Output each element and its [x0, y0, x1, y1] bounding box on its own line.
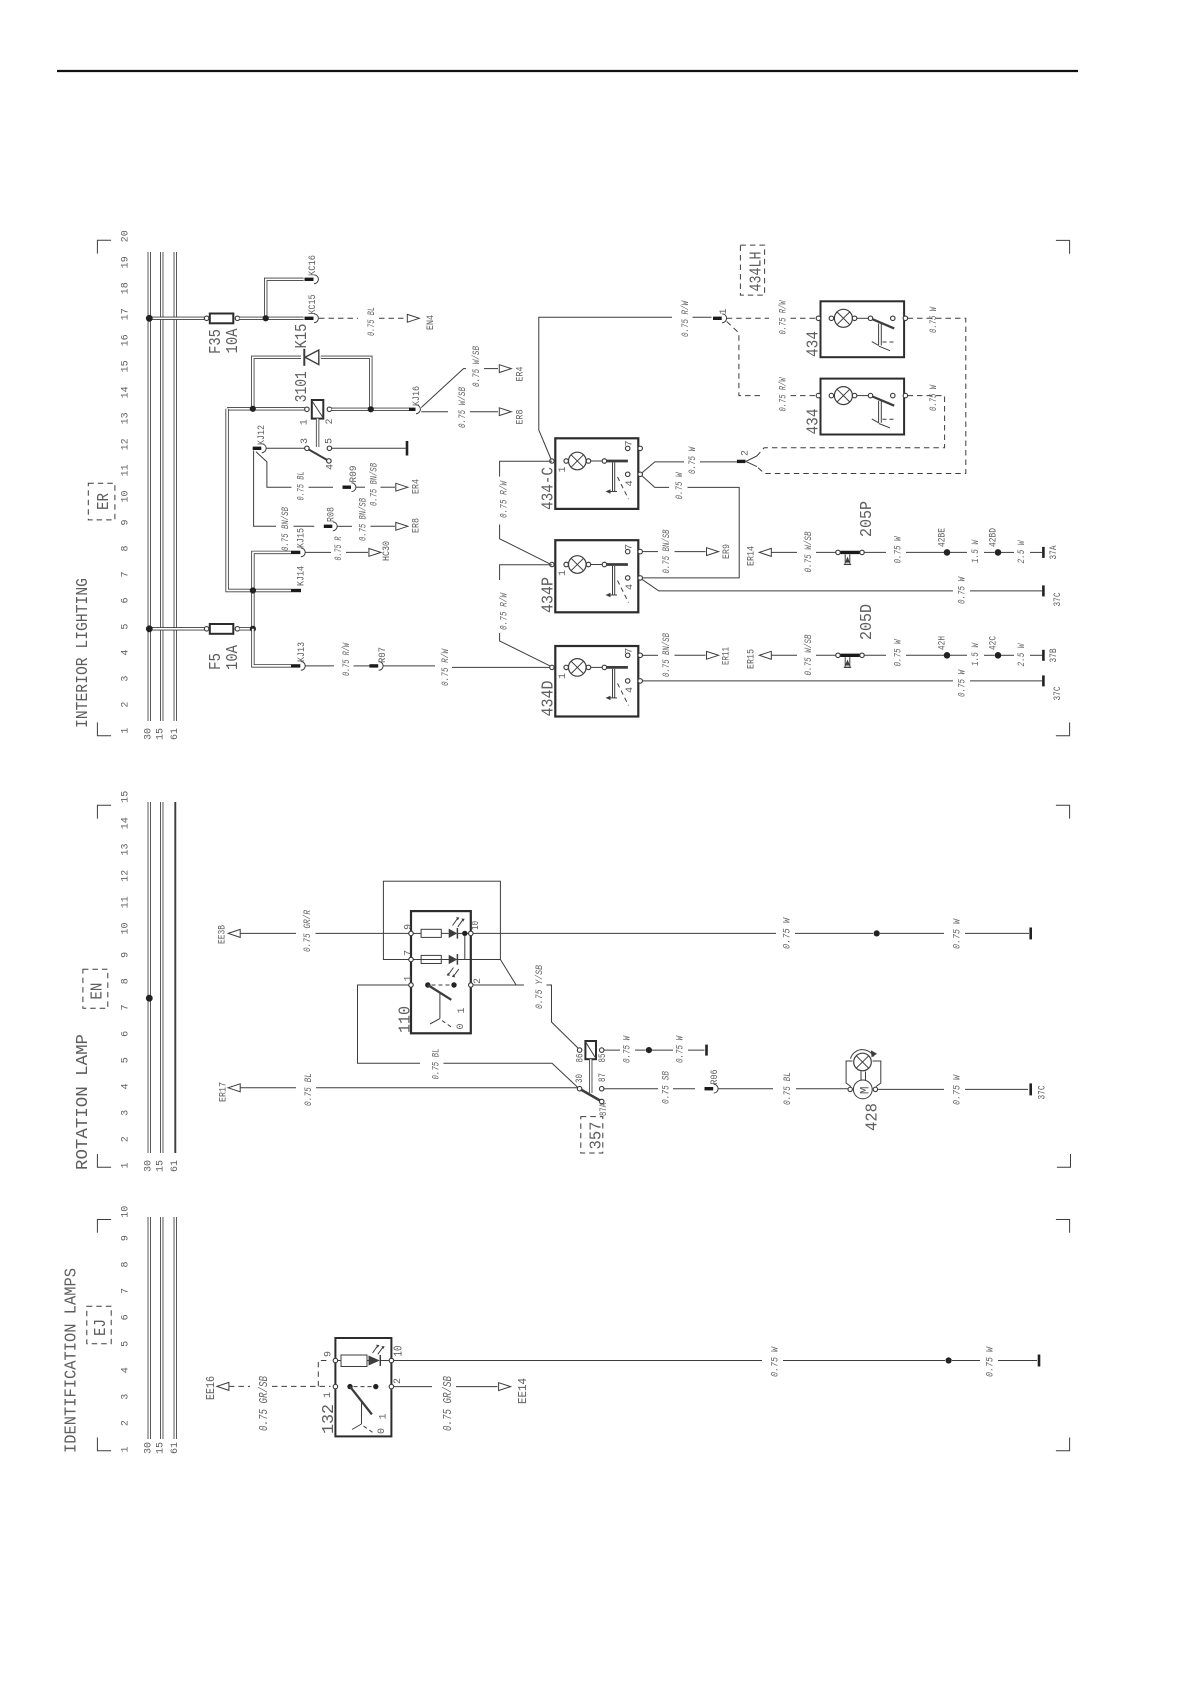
- relay switch contacts 3/5: [305, 446, 310, 451]
- dashed wire to lower 434: [791, 395, 817, 397]
- chassis T bar: [406, 441, 409, 456]
- svg-text:3: 3: [121, 1110, 132, 1116]
- svg-text:ER11: ER11: [722, 647, 733, 665]
- switch actuator 434P: [613, 566, 615, 595]
- connector R07: [369, 664, 378, 667]
- svg-text:17: 17: [121, 308, 132, 320]
- svg-text:13: 13: [121, 843, 132, 855]
- svg-text:4: 4: [326, 464, 337, 470]
- wire 434D pin4 to ground 37C lower: [642, 680, 953, 682]
- 357 pin30: [577, 1086, 582, 1091]
- switch detent 132: [361, 1402, 363, 1425]
- svg-text:ER: ER: [95, 493, 114, 510]
- connector R08: [324, 525, 333, 528]
- svg-text:4: 4: [625, 687, 636, 693]
- svg-text:110: 110: [397, 1006, 416, 1033]
- resistor (110 upper): [413, 932, 421, 934]
- svg-text:6: 6: [121, 1314, 132, 1320]
- wire KJ15 riser: [253, 552, 291, 628]
- svg-text:0.75 W: 0.75 W: [929, 306, 940, 333]
- 132 pin2: [389, 1384, 394, 1389]
- svg-text:9: 9: [403, 924, 414, 930]
- wire 357 pin85 to ground: [604, 1049, 620, 1051]
- junction node KJ14/KJ15/F5: [250, 587, 256, 593]
- svg-text:0.75 W: 0.75 W: [958, 576, 969, 604]
- svg-text:9: 9: [121, 952, 132, 958]
- frame tick top-right ER: [1056, 240, 1070, 253]
- junction node K15/KJ16: [368, 406, 374, 412]
- svg-text:357: 357: [588, 1122, 607, 1150]
- wire branch to KC16: [266, 279, 304, 318]
- connector R09: [343, 486, 352, 489]
- wire KJ13 to R07: [305, 665, 334, 667]
- svg-text:KJ14: KJ14: [297, 566, 308, 586]
- svg-text:5: 5: [121, 1057, 132, 1063]
- arrow EE14: [499, 1383, 511, 1391]
- svg-text:434: 434: [805, 331, 824, 357]
- svg-text:0.75 W: 0.75 W: [771, 1346, 782, 1377]
- bus 15 ER: [160, 252, 163, 721]
- switch detent 110: [439, 993, 441, 1019]
- wire 434P pin7 to ER9: [642, 551, 658, 553]
- wire to 42C: [984, 654, 995, 656]
- wire to ER11 arrow: [675, 654, 706, 656]
- wire to ground 37A: [1030, 551, 1042, 553]
- svg-text:42BD: 42BD: [989, 528, 1000, 547]
- wire LED to pin10: [457, 932, 470, 934]
- switch 110: [425, 982, 430, 987]
- svg-text:ER9: ER9: [722, 544, 733, 559]
- wire LED to pin10: [380, 1360, 389, 1362]
- svg-text:0: 0: [377, 1428, 388, 1434]
- svg-text:13: 13: [121, 412, 132, 424]
- svg-text:6: 6: [121, 1031, 132, 1037]
- svg-text:42BE: 42BE: [938, 528, 949, 547]
- relay switch blade: [308, 449, 327, 460]
- wire F35 to KC15: [240, 317, 304, 320]
- ground 37C (EN): [1029, 1083, 1032, 1095]
- fuse F35: [204, 316, 209, 321]
- connector KJ12: [253, 447, 262, 450]
- svg-text:10A: 10A: [224, 328, 243, 354]
- wire to ground bar 37C: [965, 1088, 1028, 1090]
- ground 37C (lower): [1042, 675, 1045, 686]
- arrow ER9: [707, 548, 719, 556]
- splice node (EJ ground wire): [946, 1357, 952, 1363]
- wire node to KJ14: [250, 589, 291, 592]
- svg-text:3: 3: [121, 1394, 132, 1400]
- ground 37A: [1042, 547, 1045, 558]
- svg-text:30: 30: [143, 1442, 154, 1454]
- svg-text:61: 61: [170, 728, 181, 740]
- svg-text:14: 14: [121, 386, 132, 398]
- 110 pin10: [469, 931, 474, 936]
- ground bar (85 wire): [705, 1045, 708, 1056]
- svg-text:EJ: EJ: [92, 1319, 111, 1336]
- svg-text:2.5 W: 2.5 W: [1017, 643, 1028, 667]
- svg-text:0.75 W/SB: 0.75 W/SB: [803, 532, 815, 573]
- svg-text:1.5 W: 1.5 W: [971, 642, 982, 666]
- svg-text:HC30: HC30: [382, 541, 393, 561]
- svg-text:0.75 BN/SB: 0.75 BN/SB: [661, 633, 673, 677]
- svg-text:20: 20: [121, 230, 132, 242]
- wire to EE14 arrow: [456, 1386, 498, 1388]
- svg-text:0: 0: [456, 1023, 467, 1029]
- wire LED lower to junction: [457, 935, 464, 960]
- svg-text:205D: 205D: [858, 604, 877, 640]
- svg-text:R06: R06: [710, 1070, 721, 1085]
- svg-text:KC15: KC15: [308, 295, 319, 315]
- wire to ground bar: [688, 1049, 705, 1051]
- svg-text:15: 15: [156, 1442, 167, 1454]
- connector KJ13: [291, 664, 300, 667]
- svg-text:KJ12: KJ12: [257, 425, 268, 445]
- frame tick bottom-right EN: [1057, 1154, 1071, 1167]
- svg-text:37C: 37C: [1038, 1086, 1049, 1100]
- wire 428 to ground 37C: [878, 1088, 944, 1090]
- svg-text:3: 3: [121, 676, 132, 682]
- connector J2 (434LH pin 2): [737, 460, 746, 463]
- wire to HC30 arrow: [346, 551, 368, 553]
- switch 132: [347, 1384, 352, 1389]
- splice node (110 ground wire): [874, 930, 880, 936]
- svg-text:0.75 W: 0.75 W: [688, 446, 699, 474]
- svg-text:4: 4: [625, 584, 636, 590]
- 434P pin1: [550, 562, 554, 566]
- wire 110 pin10 to ground: [473, 932, 776, 934]
- lamp unit 434 upper box: [821, 301, 905, 357]
- svg-text:12: 12: [121, 870, 132, 882]
- svg-text:10A: 10A: [224, 644, 243, 670]
- lamp 434P: [569, 556, 587, 574]
- wire node down to KJ13: [253, 629, 291, 666]
- connector J1 (434LH pin 1): [713, 317, 722, 320]
- svg-text:0.75 W/SB: 0.75 W/SB: [457, 387, 469, 428]
- svg-text:3101: 3101: [293, 371, 312, 402]
- wire 434D pin7 to ER11: [642, 654, 658, 656]
- wire splice to ground: [952, 1360, 980, 1362]
- column numbers EN 1-15: [121, 791, 132, 1169]
- svg-text:0.75 BL: 0.75 BL: [783, 1072, 794, 1105]
- svg-text:37C: 37C: [1053, 687, 1064, 701]
- frame tick bottom-left EN: [97, 1154, 111, 1167]
- svg-text:4: 4: [121, 650, 132, 656]
- svg-text:1: 1: [558, 673, 569, 679]
- svg-text:18: 18: [121, 282, 132, 294]
- svg-text:2: 2: [741, 450, 752, 456]
- bus 30 EN: [148, 802, 151, 1153]
- svg-text:1: 1: [121, 728, 132, 734]
- wire 357 pin87 to R06: [604, 1088, 658, 1090]
- svg-text:INTERIOR LIGHTING: INTERIOR LIGHTING: [74, 578, 93, 728]
- svg-text:30: 30: [143, 1160, 154, 1172]
- switch blade 434 lower: [872, 397, 894, 406]
- dashed wire EE16 to 132: [229, 1385, 250, 1387]
- dashed wire 434 upper to J2 loop: [757, 318, 966, 473]
- svg-text:0.75 R/W: 0.75 R/W: [778, 377, 790, 412]
- svg-text:0.75 BL: 0.75 BL: [367, 307, 378, 336]
- connector KC16: [305, 275, 319, 284]
- svg-text:428: 428: [864, 1103, 883, 1131]
- svg-text:10: 10: [121, 1206, 132, 1218]
- junction node F5 output: [250, 626, 256, 632]
- switch actuator 434-C: [613, 462, 615, 491]
- wire EE3B to 110 pin9: [240, 932, 296, 934]
- svg-text:10: 10: [121, 490, 132, 502]
- junction node at F35 output: [263, 315, 269, 321]
- svg-text:0.75 BL: 0.75 BL: [297, 472, 308, 501]
- svg-text:8: 8: [121, 545, 132, 551]
- 434 upper pins and lamp: [816, 316, 821, 321]
- svg-text:1: 1: [558, 570, 569, 576]
- svg-text:0.75 R: 0.75 R: [334, 537, 345, 561]
- wire splice to ground: [880, 932, 944, 934]
- wire KJ16 to ER4 (diagonal): [421, 369, 466, 408]
- wire to splice: [635, 1049, 646, 1051]
- wire to ground 37C lower: [970, 680, 1042, 682]
- svg-text:K15: K15: [293, 324, 312, 349]
- ground bar (EN upper): [1029, 928, 1032, 940]
- dashed wire J1 to lower 434: [727, 322, 760, 396]
- splice 42H: [944, 652, 951, 659]
- wire ER15 to 205D: [771, 654, 797, 656]
- svg-text:434P: 434P: [540, 577, 559, 613]
- svg-text:0.75 W: 0.75 W: [958, 669, 969, 697]
- svg-text:0.75 BN/SB: 0.75 BN/SB: [280, 507, 292, 551]
- svg-text:10: 10: [471, 921, 482, 930]
- wire KJ12 to R08 (0.75 BN/SB): [254, 451, 276, 527]
- wire to ER8 arrow: [470, 411, 498, 413]
- bus 30 ER: [148, 252, 151, 721]
- svg-text:0.75 W: 0.75 W: [676, 1035, 687, 1063]
- svg-text:ER17: ER17: [219, 1082, 230, 1102]
- 110 pin9: [409, 931, 414, 936]
- splice 42BE: [944, 549, 951, 556]
- wire ER14 to 205P: [771, 551, 797, 553]
- svg-text:4: 4: [625, 480, 636, 486]
- svg-text:KJ15: KJ15: [297, 528, 308, 548]
- svg-text:15: 15: [156, 728, 167, 740]
- wire 434-C pin4 down to 434P pin4: [642, 476, 669, 488]
- wire KJ16 to ER8: [421, 411, 448, 413]
- node on bus 30 (EN): [146, 995, 153, 1002]
- svg-text:86: 86: [576, 1054, 587, 1063]
- svg-text:61: 61: [170, 1442, 181, 1454]
- 434P pin4: [625, 576, 630, 581]
- svg-text:0.75 BN/SB: 0.75 BN/SB: [661, 530, 673, 574]
- box 434P: [555, 540, 638, 612]
- wire to J2: [700, 461, 737, 463]
- wire to ER9 arrow: [675, 551, 706, 553]
- svg-text:R07: R07: [378, 647, 389, 663]
- arrow ER8 (upper): [499, 408, 511, 416]
- box 434D: [555, 646, 638, 717]
- svg-text:9: 9: [121, 1235, 132, 1241]
- fuse F5: [204, 627, 209, 632]
- svg-text:15: 15: [121, 360, 132, 372]
- rotation lamp 428: [848, 1087, 852, 1091]
- svg-text:8: 8: [121, 978, 132, 984]
- svg-text:1: 1: [323, 1392, 334, 1398]
- wire to 357 pin86: [547, 985, 579, 1049]
- wire 132 pin2 to EE14: [394, 1386, 433, 1388]
- resistor (110 lower): [413, 959, 421, 961]
- 434-C pin1: [550, 459, 554, 463]
- svg-text:8: 8: [121, 1261, 132, 1267]
- svg-text:6: 6: [121, 597, 132, 603]
- svg-text:0.75 W: 0.75 W: [623, 1035, 634, 1063]
- svg-text:1.5 W: 1.5 W: [971, 539, 982, 563]
- svg-text:1: 1: [403, 975, 414, 981]
- arrow ER15 (source): [759, 651, 771, 659]
- wire diode K15 branch left: [253, 357, 301, 409]
- wire bus30 to fuse F35: [149, 317, 204, 320]
- diode K15: [303, 349, 305, 366]
- svg-text:12: 12: [121, 438, 132, 450]
- bus 15 EJ: [160, 1217, 163, 1439]
- wire to ER4 arrow: [381, 486, 396, 488]
- svg-text:434LH: 434LH: [748, 252, 767, 292]
- svg-text:0.75 R/W: 0.75 R/W: [778, 300, 790, 335]
- svg-text:2: 2: [473, 978, 484, 984]
- column numbers EJ 1-10: [121, 1206, 132, 1453]
- svg-text:7: 7: [121, 1004, 132, 1010]
- wire ER17 to 357 pin30: [240, 1087, 296, 1089]
- svg-text:0.75 W: 0.75 W: [894, 536, 905, 564]
- junction node diode/relay: [250, 406, 256, 412]
- wire 434P pin4 to ground 37C: [642, 579, 953, 591]
- svg-text:5: 5: [121, 1341, 132, 1347]
- svg-text:9: 9: [121, 519, 132, 525]
- switch detent 434 lower: [879, 401, 882, 423]
- arrow ER17 (source): [228, 1084, 240, 1092]
- 434-C pin4: [625, 472, 630, 477]
- 434D pin1: [550, 665, 554, 669]
- connector KJ16: [409, 408, 416, 411]
- svg-text:0.75 W: 0.75 W: [953, 1074, 964, 1105]
- svg-text:ER4: ER4: [412, 479, 423, 494]
- svg-text:30: 30: [575, 1074, 586, 1083]
- svg-text:EE16: EE16: [205, 1376, 218, 1400]
- svg-text:KJ16: KJ16: [412, 386, 423, 406]
- 132 pin1: [333, 1384, 338, 1389]
- 434P pin7: [625, 549, 630, 554]
- wire relay to KJ16: [332, 408, 410, 411]
- svg-text:19: 19: [121, 256, 132, 268]
- lamp housing outline 110: [383, 881, 500, 959]
- wire 357 coil to switch: [589, 1059, 592, 1093]
- 357 switch blade: [581, 1090, 600, 1101]
- svg-text:10: 10: [121, 922, 132, 934]
- LED (110 lower): [449, 955, 458, 964]
- wire KJ12 to contact 3: [266, 447, 305, 449]
- header rule: [57, 70, 1078, 72]
- wire R08 to ER8 arrow: [337, 525, 352, 527]
- svg-text:M: M: [858, 1086, 873, 1094]
- wire to 205D: [816, 654, 836, 656]
- wire relay coil to switch: [316, 419, 319, 447]
- svg-text:37B: 37B: [1049, 649, 1060, 663]
- connector R06: [705, 1087, 714, 1090]
- wire down from relay row to KJ14 node: [227, 409, 250, 591]
- svg-text:0.75 W: 0.75 W: [894, 639, 905, 667]
- wire to R07: [354, 665, 370, 667]
- svg-text:EE14: EE14: [517, 1378, 530, 1404]
- wire 42H to 42C: [950, 654, 967, 656]
- box 110: [411, 911, 471, 1033]
- arrow HC30: [369, 549, 381, 557]
- svg-text:7: 7: [403, 950, 414, 956]
- column numbers ER 1-20: [121, 230, 132, 733]
- svg-text:R09: R09: [349, 466, 360, 483]
- 132 pin10: [389, 1358, 394, 1363]
- svg-text:3: 3: [300, 438, 311, 444]
- svg-text:0.75 GR/SB: 0.75 GR/SB: [442, 1376, 455, 1431]
- svg-text:9: 9: [324, 1351, 335, 1357]
- svg-text:434D: 434D: [540, 681, 559, 717]
- bus 15 EN: [160, 802, 163, 1153]
- junction node bus30/F35: [146, 315, 153, 322]
- bus 30 EJ: [148, 1217, 151, 1439]
- svg-text:2: 2: [393, 1378, 404, 1384]
- junction node (110 LEDs): [462, 931, 467, 936]
- frame tick top-right EJ: [1056, 1220, 1070, 1233]
- 357 contact 87A: [599, 1099, 604, 1104]
- wire 42BE to 42BD: [950, 551, 967, 553]
- wire to splice: [783, 1360, 945, 1362]
- switch blade 434 upper: [872, 319, 894, 328]
- 434D pin4: [625, 679, 630, 684]
- wire 42C to ground 37B: [1001, 654, 1014, 656]
- 434-C pin7: [625, 446, 630, 451]
- svg-text:16: 16: [121, 334, 132, 346]
- svg-text:KJ13: KJ13: [297, 642, 308, 662]
- svg-text:1: 1: [558, 466, 569, 472]
- svg-text:ER8: ER8: [516, 410, 527, 425]
- 434D pin7: [625, 653, 630, 658]
- 434 lower pins and lamp: [816, 393, 821, 398]
- dashed wire KC15 to EN4: [319, 317, 358, 319]
- svg-text:2.5 W: 2.5 W: [1017, 540, 1028, 564]
- svg-text:87: 87: [598, 1073, 609, 1082]
- lamp in 434 lower: [834, 387, 852, 405]
- svg-text:0.75 W: 0.75 W: [953, 918, 964, 949]
- svg-text:14: 14: [121, 817, 132, 829]
- switch actuator 434D: [613, 669, 615, 698]
- ground bar (EJ): [1038, 1355, 1041, 1367]
- resistor (132): [338, 1360, 342, 1362]
- wire chain1 diagonal: [500, 525, 552, 565]
- svg-text:1: 1: [121, 1162, 132, 1168]
- bus 61 ER: [174, 252, 177, 721]
- wire R09 to ER4 arrow: [356, 486, 365, 488]
- svg-text:2: 2: [121, 1136, 132, 1142]
- LED (110 upper): [449, 929, 458, 938]
- wire KJ12 to R09 (0.75 BL): [256, 452, 292, 487]
- svg-text:5: 5: [325, 438, 336, 444]
- wire to 42BD: [984, 551, 995, 553]
- relay 3101: [305, 407, 310, 412]
- svg-text:4: 4: [121, 1083, 132, 1089]
- connector KJ15: [291, 551, 300, 554]
- wire 110 pin1 loop: [358, 985, 421, 1063]
- box 132: [335, 1338, 391, 1436]
- ground 37B: [1042, 650, 1045, 661]
- dashed wire to 132 pin1: [272, 1385, 331, 1387]
- dashed box 434LH: [740, 245, 764, 295]
- wire to R09: [309, 486, 334, 488]
- arrow ER11: [707, 651, 719, 659]
